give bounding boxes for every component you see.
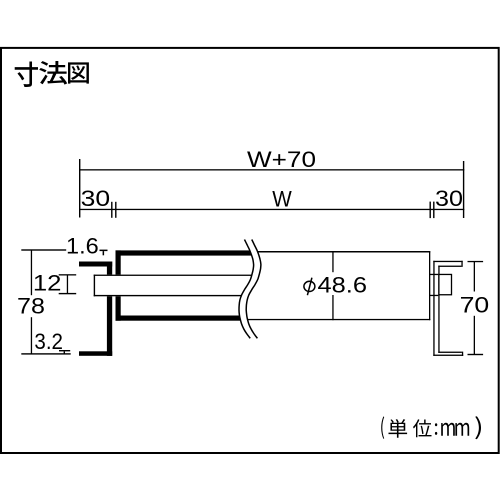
dimension 12: [67, 275, 68, 294]
right frame channel bottom flange lip: [462, 352, 463, 356]
right frame channel bottom flange inner: [438, 352, 462, 353]
roller tube top wall: [116, 250, 252, 255]
unit note (単位:mm): [381, 416, 481, 439]
extension line right: [463, 161, 464, 218]
right frame channel outer web: [433, 261, 434, 356]
break squiggle: [239, 240, 261, 339]
svg-text:78: 78: [17, 294, 45, 319]
right frame channel top flange lip: [461, 261, 462, 267]
right frame channel bottom flange outer: [433, 355, 463, 356]
dimension line 78 vertical: [31, 250, 32, 295]
svg-text:30: 30: [435, 186, 463, 211]
dimension 78 bottom tick: [21, 353, 70, 354]
thickness mark 1.6: [100, 250, 108, 252]
label phi 48.6: [304, 281, 315, 291]
tube seam line: [332, 251, 333, 272]
roller tube thin top line: [257, 251, 430, 253]
roller tube left end cap: [116, 250, 121, 320]
left frame channel top flange: [79, 262, 112, 267]
extension line left: [79, 159, 80, 218]
shaft: [94, 275, 250, 297]
right frame channel inner web: [438, 266, 439, 353]
dimension line 70 vertical: [474, 262, 475, 292]
left frame channel web: [107, 262, 112, 356]
dimension 70 top tick: [468, 261, 484, 262]
right frame channel top flange inner: [438, 266, 461, 267]
svg-text:48.6: 48.6: [318, 272, 368, 297]
dimension line 30 W 30: [79, 209, 464, 210]
dimension 70 bottom tick: [468, 354, 484, 355]
roller tube bottom wall: [116, 316, 242, 321]
shaft right stub: [429, 274, 438, 275]
dimension 78 top tick: [21, 249, 66, 250]
svg-text:1.6: 1.6: [66, 234, 99, 259]
title 寸法図: [15, 61, 89, 87]
svg-text:W+70: W+70: [247, 147, 316, 172]
dimension line W+70: [79, 169, 464, 170]
svg-text:30: 30: [81, 186, 111, 211]
left frame channel bottom flange: [79, 351, 112, 356]
thickness mark 3.2: [59, 350, 70, 351]
svg-text:70: 70: [460, 292, 490, 317]
svg-text:12: 12: [33, 271, 62, 296]
tick marks left W boundary: [111, 202, 112, 218]
svg-text:W: W: [272, 186, 292, 211]
tick marks right W boundary: [430, 202, 431, 219]
right frame channel top flange outer: [433, 261, 462, 262]
svg-text:3.2: 3.2: [34, 329, 63, 354]
shaft right end block: [439, 274, 452, 294]
roller tube thin bottom line: [244, 319, 430, 320]
roller tube right end: [429, 251, 430, 320]
